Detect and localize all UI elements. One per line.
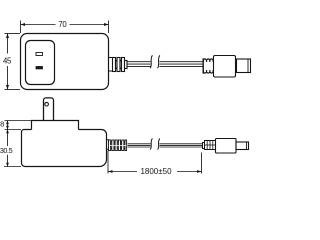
svg-text:1800±50: 1800±50 — [140, 167, 172, 176]
svg-text:45: 45 — [3, 56, 12, 65]
svg-text:70: 70 — [58, 20, 67, 29]
svg-text:8: 8 — [0, 120, 4, 129]
svg-text:30.5: 30.5 — [0, 146, 13, 155]
